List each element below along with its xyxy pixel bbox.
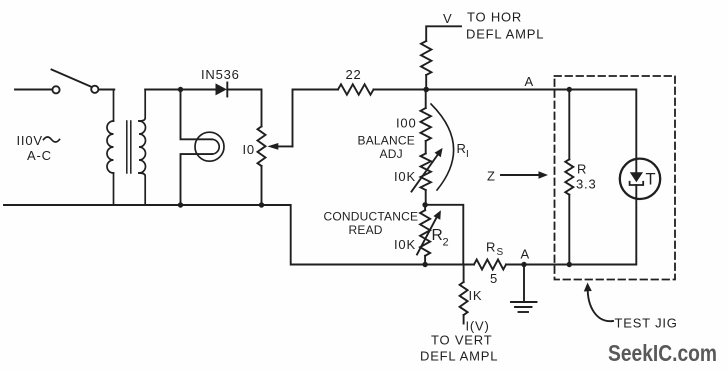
potentiometer 10 wiper arrow bbox=[267, 143, 292, 150]
TEST JIG pointer arrow bbox=[584, 283, 613, 322]
wire bottom-left source lead bbox=[4, 204, 114, 206]
svg-text:R: R bbox=[486, 240, 496, 255]
transformer T1 secondary winding bbox=[139, 90, 146, 206]
wire lamp branch upper bbox=[181, 90, 212, 140]
watermark SeekIC.com bbox=[608, 340, 717, 366]
labels RS 5 A bbox=[486, 240, 530, 287]
node junction dot jig bottom bbox=[567, 262, 572, 267]
svg-text:2: 2 bbox=[443, 237, 449, 249]
resistor R 3.3 bbox=[565, 90, 573, 265]
labels 100 BALANCE ADJ 10K bbox=[358, 116, 417, 185]
svg-text:DEFL AMPL: DEFL AMPL bbox=[466, 27, 544, 42]
node junction dot R2 bottom bbox=[422, 262, 427, 267]
label V TO HOR DEFL AMPL bbox=[443, 10, 544, 42]
transformer T1 core bbox=[127, 121, 131, 173]
resistor 1K bbox=[460, 282, 468, 324]
svg-text:Z: Z bbox=[487, 169, 496, 184]
labels R 3.3 bbox=[576, 162, 596, 192]
resistor 22 bbox=[338, 84, 374, 94]
svg-text:A-C: A-C bbox=[27, 148, 52, 163]
svg-text:V: V bbox=[443, 11, 452, 26]
label IN536 bbox=[201, 67, 240, 82]
svg-text:II0V: II0V bbox=[17, 133, 43, 148]
svg-text:A: A bbox=[521, 247, 530, 262]
dashed box TEST JIG bbox=[555, 76, 676, 280]
wire RS to node A bbox=[506, 264, 555, 266]
wire wiper riser to 22 resistor bbox=[293, 90, 339, 147]
svg-text:22: 22 bbox=[346, 67, 362, 82]
svg-text:SeekIC.com: SeekIC.com bbox=[608, 340, 717, 366]
wire tunnel diode to jig bottom bbox=[569, 199, 636, 265]
svg-text:CONDUCTANCE: CONDUCTANCE bbox=[324, 210, 419, 224]
diode CR1 1N536 bbox=[216, 83, 228, 97]
wire lamp branch lower bbox=[181, 154, 212, 205]
wire V terminal bbox=[426, 26, 461, 89]
svg-text:TO VERT: TO VERT bbox=[431, 333, 492, 348]
wire 1K branch bbox=[463, 265, 465, 283]
node junction dot jig top bbox=[567, 87, 572, 92]
svg-text:I(V): I(V) bbox=[466, 319, 490, 334]
node junction dot R1/R2 bbox=[422, 202, 427, 207]
wire diode cathode to pot 10 bbox=[227, 90, 261, 127]
svg-text:3.3: 3.3 bbox=[576, 177, 596, 192]
node A lower junction dot bbox=[521, 262, 526, 267]
switch S1 bbox=[52, 70, 99, 94]
svg-text:IK: IK bbox=[469, 288, 483, 303]
svg-text:IN536: IN536 bbox=[201, 67, 240, 82]
wire main rail to test jig bbox=[426, 89, 569, 91]
svg-text:BALANCE: BALANCE bbox=[358, 134, 415, 148]
svg-text:5: 5 bbox=[490, 271, 498, 286]
R2 wiper arrow bbox=[417, 210, 441, 254]
svg-text:DEFL AMPL: DEFL AMPL bbox=[420, 349, 498, 364]
wire switch to transformer primary bbox=[99, 89, 115, 91]
svg-text:T: T bbox=[646, 171, 656, 189]
label R1 bbox=[457, 141, 469, 160]
label 110V A-C source bbox=[17, 133, 52, 163]
label Z with arrow bbox=[487, 169, 496, 184]
svg-text:I0K: I0K bbox=[394, 169, 416, 184]
node junction dot bottom of lamp branch bbox=[178, 202, 183, 207]
label TEST JIG bbox=[615, 316, 678, 331]
resistor R1 lower section 10K bbox=[421, 141, 431, 205]
wire link R1 bottom over to 1K branch bbox=[425, 205, 463, 265]
transformer T1 primary winding bbox=[107, 90, 114, 206]
svg-text:I00: I00 bbox=[396, 116, 416, 131]
ground bbox=[511, 265, 537, 313]
label 22 bbox=[346, 67, 362, 82]
node junction dot top of lamp branch bbox=[178, 87, 183, 92]
svg-text:R: R bbox=[432, 227, 443, 244]
svg-text:I0: I0 bbox=[243, 142, 255, 157]
sine symbol for AC bbox=[44, 137, 60, 142]
svg-text:A: A bbox=[525, 74, 534, 89]
wire bottom rail into test jig bbox=[555, 264, 570, 266]
wire lower rail step bbox=[114, 205, 475, 265]
resistor R1 upper section 100 bbox=[421, 90, 431, 142]
node junction dot pot bottom bbox=[259, 202, 264, 207]
svg-text:I0K: I0K bbox=[394, 237, 416, 252]
R1 bracket arc bbox=[431, 104, 454, 190]
labels CONDUCTANCE READ 10K R2 bbox=[324, 210, 449, 253]
svg-text:I: I bbox=[466, 149, 469, 160]
wire 22 to main node bbox=[374, 89, 427, 91]
label 10 bbox=[243, 142, 255, 157]
labels 1K I(V) TO VERT DEFL AMPL bbox=[420, 288, 498, 364]
svg-text:R: R bbox=[577, 162, 587, 177]
wire secondary top to diode anode bbox=[145, 89, 215, 91]
wire top-left source lead bbox=[15, 89, 52, 91]
wire jig top to tunnel diode bbox=[569, 90, 636, 160]
wire pot bottom to rail bbox=[261, 166, 263, 205]
svg-text:S: S bbox=[497, 247, 504, 258]
label A top bbox=[525, 74, 534, 89]
svg-text:READ: READ bbox=[349, 223, 383, 237]
label T bbox=[646, 171, 656, 189]
svg-text:TO HOR: TO HOR bbox=[467, 10, 522, 25]
resistor to V terminal bbox=[421, 41, 431, 75]
tunnel diode T circle bbox=[620, 159, 660, 199]
resistor R2 bbox=[420, 205, 430, 265]
svg-text:TEST JIG: TEST JIG bbox=[615, 316, 678, 331]
svg-text:ADJ: ADJ bbox=[380, 147, 403, 161]
potentiometer 10 body bbox=[258, 126, 266, 166]
lamp DS1 bbox=[195, 132, 224, 161]
Z arrow bbox=[501, 171, 548, 178]
resistor RS 5 bbox=[474, 260, 506, 270]
node A upper junction dot bbox=[423, 87, 429, 93]
R1 wiper arrow bbox=[412, 148, 443, 192]
tunnel diode T symbol bbox=[630, 159, 644, 198]
